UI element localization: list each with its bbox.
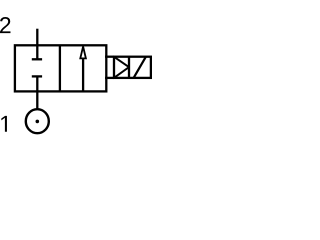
solenoid connecting stub top: [105, 56, 114, 58]
wire port 1: [36, 91, 38, 109]
solenoid triangle lower diagonal: [114, 67, 129, 78]
solenoid diagonal (right cell): [134, 57, 146, 78]
port label 1: [1, 116, 7, 132]
wire port 2: [36, 29, 38, 45]
solenoid box divider: [128, 57, 130, 78]
solenoid connecting stub bottom: [105, 77, 114, 79]
port label 2: [0, 17, 10, 33]
valve position divider: [59, 45, 61, 91]
valve body V1 outline: [15, 45, 106, 91]
flow arrow: [80, 47, 86, 92]
solenoid triangle upper diagonal: [114, 57, 129, 67]
solenoid box U1: [114, 57, 151, 78]
source circle centre dot: [36, 120, 40, 124]
blocked port T top: [32, 45, 42, 59]
source circle (port 1 connection): [26, 109, 49, 133]
blocked port T bottom: [32, 76, 42, 91]
